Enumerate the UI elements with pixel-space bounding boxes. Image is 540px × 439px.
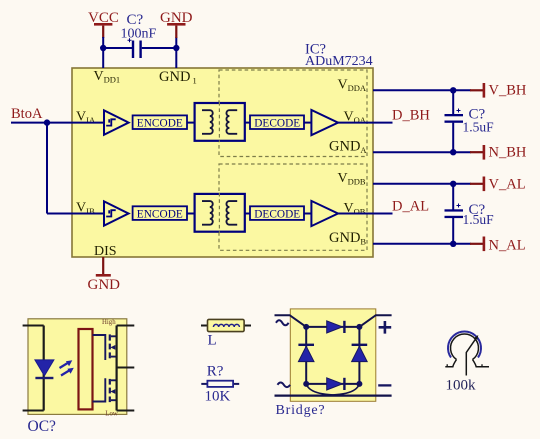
AC symbol bottom xyxy=(278,383,291,388)
svg-text:OC?: OC? xyxy=(28,418,57,435)
potentiometer 100k xyxy=(445,332,489,376)
wire bridge right edge xyxy=(358,327,360,384)
svg-text:R?: R? xyxy=(207,364,224,380)
wire transformer A to decode xyxy=(245,122,250,124)
diode D4 right xyxy=(352,344,368,362)
wire GNDA xyxy=(373,151,471,153)
wire bridge left edge xyxy=(305,327,307,384)
pin OC mid xyxy=(117,367,135,369)
port V_BH xyxy=(483,83,527,99)
svg-text:ADuM7234: ADuM7234 xyxy=(305,54,373,69)
wire VDDB xyxy=(373,183,471,185)
junction GNDB node xyxy=(450,241,456,247)
junction bridge top-right xyxy=(356,324,362,330)
wire C2 to GNDA xyxy=(452,123,454,153)
wire bridge bottom edge xyxy=(306,383,359,385)
svg-text:L: L xyxy=(208,333,217,349)
wire transformer B to decode xyxy=(245,213,250,215)
svg-text:V_AL: V_AL xyxy=(489,177,526,193)
wire encode A to transformer xyxy=(187,122,195,124)
port N_BH xyxy=(483,145,527,161)
wire C1 to GND node xyxy=(142,47,177,49)
svg-text:10K: 10K xyxy=(205,389,231,405)
svg-text:N_AL: N_AL xyxy=(489,238,526,254)
encoder block ENCODE B xyxy=(133,206,187,220)
junction VDDB node xyxy=(450,181,456,187)
junction bridge top-left xyxy=(303,324,309,330)
LED D1 xyxy=(35,360,54,379)
svg-text:100nF: 100nF xyxy=(121,27,157,42)
wire GNDB xyxy=(373,243,471,245)
wire BtoA node down xyxy=(46,123,48,214)
svg-text:DIS: DIS xyxy=(94,244,117,259)
diode D5 bottom xyxy=(327,378,346,390)
wire GND1 to GND xyxy=(175,37,177,68)
plus symbol xyxy=(379,321,392,334)
inductor L xyxy=(201,319,251,331)
decoder block DECODE A xyxy=(250,115,304,129)
capacitor C? 1.5uF channel A xyxy=(445,109,464,123)
wire VDD1 to VCC xyxy=(102,37,104,68)
wire bottom-left arc xyxy=(306,384,356,396)
wire encode B to transformer xyxy=(187,213,195,215)
junction GND node xyxy=(173,45,179,51)
wire plus terminal xyxy=(359,315,391,327)
wire VDDB node to C3 xyxy=(452,184,454,210)
junction GNDA node xyxy=(450,149,456,155)
wire VCC node to C1 xyxy=(103,47,132,49)
wire to VIB xyxy=(47,213,104,215)
wire AC2 bottom xyxy=(275,395,392,397)
transistor Q1 high-side MOSFET xyxy=(93,334,117,360)
capacitor C? 1.5uF channel B xyxy=(445,204,464,219)
transistor Q2 low-side MOSFET xyxy=(93,378,117,402)
wire OC output rail xyxy=(115,326,117,411)
wire DIS to GND xyxy=(102,257,104,275)
wire decode B to buffer xyxy=(304,213,311,215)
junction bridge bottom-left xyxy=(303,381,309,387)
svg-text:Bridge?: Bridge? xyxy=(276,403,326,418)
wire VDDA xyxy=(373,89,471,91)
wire VOB out xyxy=(336,213,393,215)
power symbol VCC xyxy=(88,10,119,38)
wire BtoA to VIA xyxy=(11,122,104,124)
isolation barrier dashed box channel B xyxy=(219,164,367,250)
wire bridge top edge xyxy=(306,326,359,328)
output buffer A xyxy=(311,110,338,135)
pin OC anode xyxy=(23,325,44,327)
output buffer B xyxy=(311,201,338,226)
wire AC1 terminal xyxy=(275,315,307,327)
transformer T1 channel A xyxy=(195,102,245,142)
port N_AL xyxy=(483,237,526,254)
AC symbol top xyxy=(276,320,289,325)
isolation barrier dashed box channel A xyxy=(219,70,367,157)
svg-text:1.5uF: 1.5uF xyxy=(463,212,495,227)
pin OC low xyxy=(117,410,135,412)
resistor R? 10K xyxy=(201,381,239,387)
pin OC high xyxy=(117,325,135,327)
decoder block DECODE B xyxy=(250,206,304,220)
wire bottom-right arc xyxy=(310,384,360,396)
pin OC cathode xyxy=(23,410,44,412)
isolation barrier rect xyxy=(79,329,93,409)
junction VDDA node xyxy=(450,87,456,93)
svg-text:N_BH: N_BH xyxy=(489,145,527,161)
optocoupler OC? body xyxy=(28,319,127,415)
svg-text:DECODE: DECODE xyxy=(254,208,300,220)
transformer T2 channel B xyxy=(195,193,245,233)
svg-text:100k: 100k xyxy=(446,378,477,394)
svg-text:D_AL: D_AL xyxy=(392,199,429,215)
svg-text:ENCODE: ENCODE xyxy=(137,117,183,129)
power symbol GND top xyxy=(160,10,193,38)
svg-text:ENCODE: ENCODE xyxy=(137,208,183,220)
power symbol GND at DIS xyxy=(88,274,121,293)
svg-text:High: High xyxy=(102,319,116,326)
svg-text:D_BH: D_BH xyxy=(392,108,430,124)
wire OC LED rail xyxy=(43,326,45,411)
buffer B input schmitt xyxy=(104,201,129,225)
svg-text:DECODE: DECODE xyxy=(254,117,300,129)
IC U1 ADuM7234 body xyxy=(72,68,373,257)
buffer A input schmitt xyxy=(104,110,129,134)
wire decode A to buffer xyxy=(304,122,311,124)
svg-text:GND: GND xyxy=(88,277,121,293)
wire C3 to GNDB xyxy=(452,218,454,244)
bridge rectifier body xyxy=(290,309,376,401)
svg-text:BtoA: BtoA xyxy=(11,106,43,122)
svg-text:1.5uF: 1.5uF xyxy=(463,120,495,135)
encoder block ENCODE A xyxy=(133,115,187,129)
junction bridge bottom-right xyxy=(356,381,362,387)
wire VOA out xyxy=(336,122,393,124)
wire VDDA node to C2 xyxy=(452,90,454,115)
svg-text:Low: Low xyxy=(105,411,118,418)
port V_AL xyxy=(483,177,526,193)
svg-text:V_BH: V_BH xyxy=(489,83,527,99)
minus symbol xyxy=(378,384,391,386)
junction VCC node xyxy=(100,45,106,51)
light arrows xyxy=(60,360,74,375)
diode D2 top xyxy=(327,321,346,333)
diode D3 left xyxy=(298,344,314,362)
junction BtoA node xyxy=(44,119,50,125)
capacitor C? 100nF xyxy=(128,38,142,58)
